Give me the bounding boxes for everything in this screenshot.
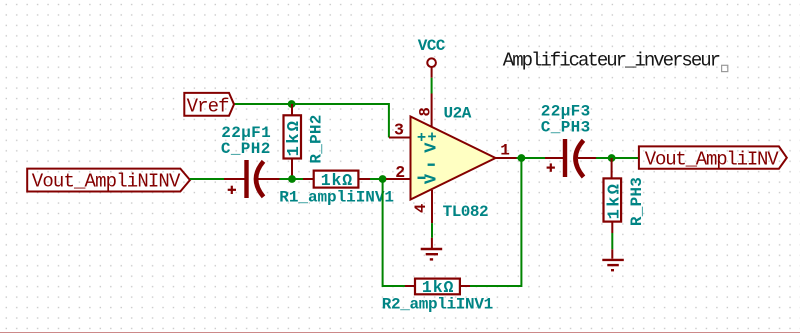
resistor R2_ampliINV1 — [382, 278, 493, 313]
junction Vref/R_PH2 — [288, 100, 296, 108]
pin name minus — [418, 177, 426, 179]
pin 8 — [431, 94, 433, 127]
global label Vref — [184, 93, 234, 118]
wire label to capacitor C_PH2 — [190, 178, 224, 180]
svg-text:C_PH3: C_PH3 — [541, 119, 591, 137]
wire feedback loop left/bottom — [383, 179, 405, 286]
pin 1 — [496, 157, 518, 159]
svg-text:4: 4 — [412, 204, 430, 213]
resistor R1_ampliINV1 — [279, 171, 394, 207]
power symbol VCC — [418, 37, 446, 78]
wire Vref to pin3 corner — [234, 104, 389, 138]
bottom sheet border line — [0, 332, 800, 333]
svg-text:1kΩ: 1kΩ — [285, 119, 304, 157]
svg-text:R_PH2: R_PH2 — [308, 114, 326, 163]
svg-text:1kΩ: 1kΩ — [422, 278, 454, 297]
resistor R_PH3 — [604, 158, 646, 233]
pin name V- — [428, 163, 435, 165]
svg-text:8: 8 — [417, 107, 435, 116]
svg-text:Vref: Vref — [187, 96, 230, 118]
ground below op-amp — [421, 238, 443, 260]
svg-text:1: 1 — [500, 142, 510, 160]
pin 2 — [386, 178, 411, 180]
junction node B feedback tap — [379, 175, 387, 183]
svg-text:C_PH2: C_PH2 — [221, 140, 271, 158]
resistor R_PH2 — [284, 104, 326, 179]
junction output node — [518, 154, 526, 162]
capacitor C_PH2 — [221, 124, 280, 198]
wire pin1 to C_PH3 — [517, 157, 546, 159]
wire pin4 to ground — [431, 223, 433, 238]
svg-text:V: V — [423, 173, 442, 184]
svg-text:Vout_AmpliINV: Vout_AmpliINV — [645, 148, 779, 170]
svg-text:R2_ampliINV1: R2_ampliINV1 — [382, 295, 493, 313]
svg-text:Vout_AmpliNINV: Vout_AmpliNINV — [32, 171, 181, 193]
pin 4 — [431, 190, 433, 223]
svg-text:TL082: TL082 — [443, 203, 489, 221]
svg-text:1kΩ: 1kΩ — [606, 182, 625, 220]
svg-text:2: 2 — [395, 163, 405, 182]
svg-text:1kΩ: 1kΩ — [321, 171, 353, 190]
wire R1 to pin2 — [370, 178, 389, 180]
junction R_PH3 tap — [608, 154, 616, 162]
svg-text:U2A: U2A — [444, 105, 472, 123]
svg-text:VCC: VCC — [418, 37, 446, 55]
wire R_PH3 to ground — [611, 233, 613, 249]
wire C_PH3 to output label — [596, 157, 639, 159]
svg-text:R_PH3: R_PH3 — [628, 177, 646, 226]
wire feedback loop right/up — [469, 158, 522, 286]
text Amplificateur_inverseur — [503, 49, 728, 71]
ground below R_PH3 — [602, 249, 624, 270]
wire VCC to pin8 — [431, 78, 433, 94]
global label Vout_AmpliINV — [639, 146, 787, 170]
pin 3 — [389, 137, 411, 139]
svg-text:V: V — [423, 142, 442, 153]
wire capacitor to R1 — [280, 178, 304, 180]
svg-text:R1_ampliINV1: R1_ampliINV1 — [279, 188, 394, 206]
op-amp U2A TL082 — [386, 94, 517, 224]
global label Vout_AmpliNINV — [27, 169, 190, 193]
svg-text:Amplificateur_inverseur: Amplificateur_inverseur — [503, 49, 720, 71]
junction node A — [288, 175, 296, 183]
svg-text:3: 3 — [394, 121, 404, 140]
capacitor C_PH3 — [541, 103, 596, 177]
